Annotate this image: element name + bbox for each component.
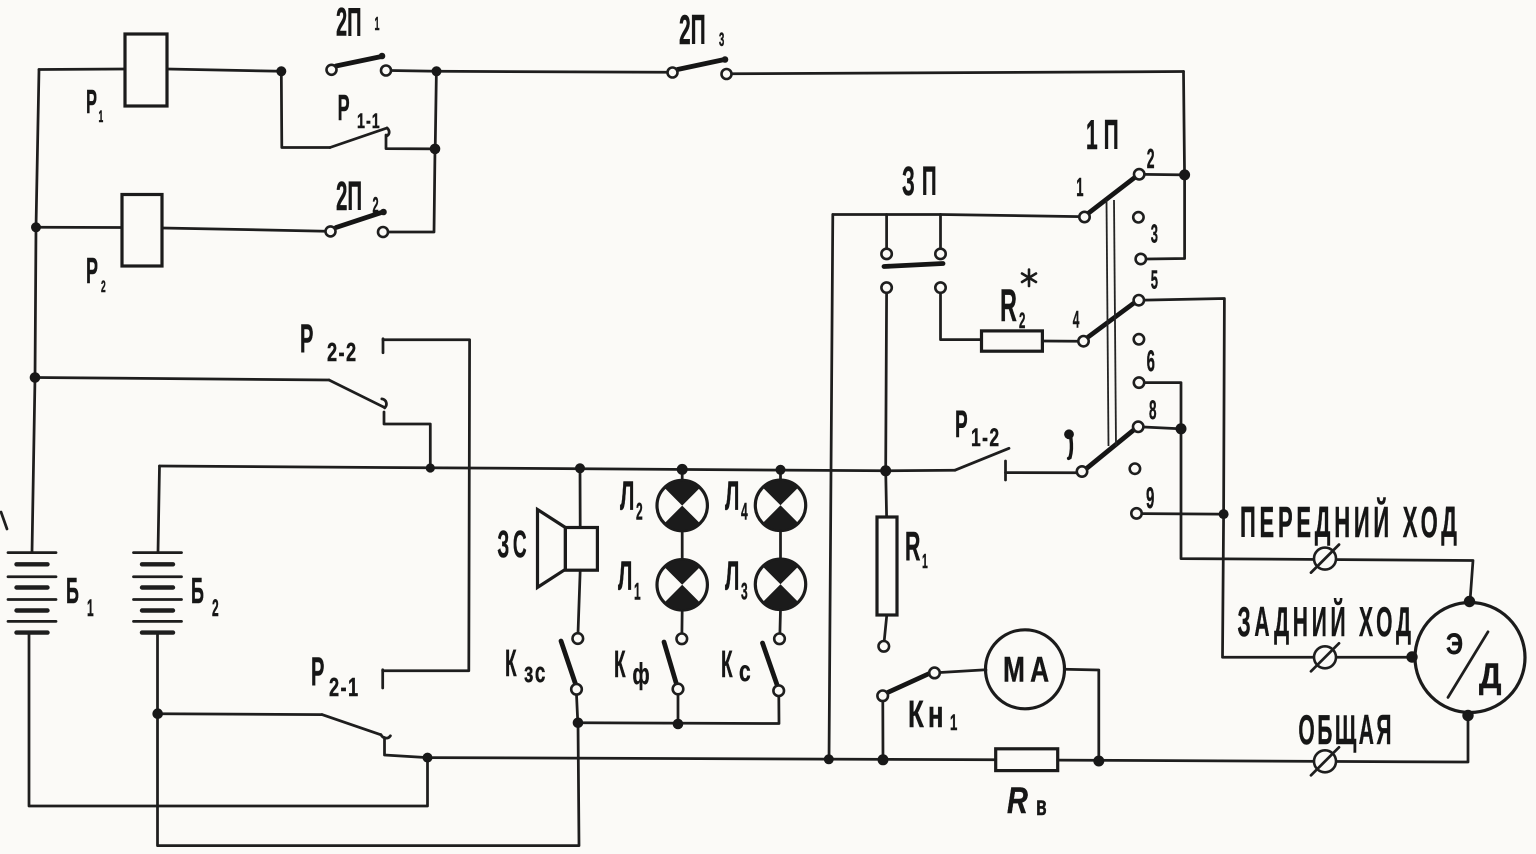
svg-text:5: 5 (1151, 266, 1158, 295)
svg-text:9: 9 (1146, 483, 1154, 516)
svg-text:2-1: 2-1 (329, 673, 360, 702)
svg-text:2: 2 (1019, 308, 1026, 333)
svg-text:МА: МА (1003, 650, 1054, 690)
svg-text:1: 1 (634, 579, 641, 606)
svg-text:1-1: 1-1 (357, 109, 381, 132)
svg-text:2: 2 (212, 596, 219, 623)
svg-text:К: К (721, 644, 733, 686)
svg-text:Л: Л (725, 553, 739, 599)
svg-text:1: 1 (950, 711, 957, 735)
svg-text:Кн: Кн (908, 693, 948, 735)
svg-text:1: 1 (922, 552, 928, 573)
svg-text:ОБЩАЯ: ОБЩАЯ (1298, 707, 1394, 754)
svg-text:Р: Р (338, 88, 350, 128)
svg-text:R: R (905, 522, 920, 568)
svg-text:Р: Р (955, 404, 968, 446)
svg-text:1: 1 (375, 15, 380, 35)
svg-text:Л: Л (620, 473, 634, 519)
svg-text:К: К (614, 644, 626, 686)
svg-text:2П: 2П (336, 0, 361, 44)
svg-text:ЗП: ЗП (902, 158, 944, 204)
svg-text:Б: Б (191, 571, 204, 611)
svg-text:2П: 2П (679, 7, 706, 54)
svg-text:Д: Д (1479, 658, 1502, 697)
svg-text:ЗС: ЗС (497, 524, 530, 566)
svg-text:1: 1 (1076, 173, 1083, 202)
svg-text:Л: Л (618, 553, 632, 599)
svg-text:с: с (739, 656, 751, 688)
svg-text:3: 3 (1151, 220, 1158, 249)
svg-text:К: К (505, 643, 517, 685)
svg-text:R: R (1007, 781, 1028, 822)
svg-text:2: 2 (101, 277, 106, 296)
svg-text:1: 1 (99, 107, 104, 126)
svg-text:2-2: 2-2 (327, 338, 358, 367)
svg-text:R: R (1000, 281, 1017, 331)
svg-text:4: 4 (1073, 307, 1080, 334)
svg-text:2: 2 (373, 192, 379, 217)
svg-text:Р: Р (300, 315, 313, 361)
svg-text:Р: Р (86, 251, 98, 291)
svg-text:ПЕРЕДНИЙ ХОД: ПЕРЕДНИЙ ХОД (1240, 497, 1461, 548)
svg-text:1П: 1П (1086, 112, 1125, 159)
svg-text:2: 2 (636, 499, 643, 526)
svg-text:Э: Э (1446, 626, 1463, 660)
svg-text:8: 8 (1149, 395, 1157, 425)
svg-text:в: в (1036, 790, 1047, 821)
svg-text:Р: Р (311, 648, 324, 694)
svg-text:ф: ф (633, 658, 650, 691)
svg-text:2П: 2П (336, 173, 362, 219)
svg-text:1-2: 1-2 (971, 423, 1000, 452)
svg-text:6: 6 (1147, 346, 1155, 379)
svg-text:3: 3 (741, 579, 748, 606)
svg-text:зс: зс (524, 657, 547, 689)
svg-text:Л: Л (725, 473, 739, 519)
svg-text:2: 2 (1147, 143, 1155, 175)
svg-text:ЗАДНИЙ ХОД: ЗАДНИЙ ХОД (1238, 597, 1415, 646)
svg-text:Б: Б (66, 571, 79, 611)
svg-text:1: 1 (87, 596, 94, 623)
svg-text:4: 4 (741, 499, 748, 526)
svg-text:Р: Р (86, 83, 97, 121)
svg-text:3: 3 (719, 30, 724, 52)
